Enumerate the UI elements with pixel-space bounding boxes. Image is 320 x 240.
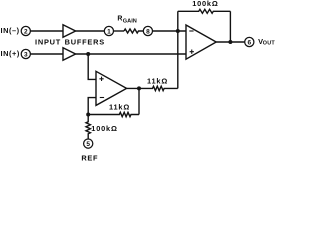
svg-text:1: 1 — [107, 28, 111, 35]
svg-text:GAIN: GAIN — [123, 18, 137, 24]
svg-text:11kΩ: 11kΩ — [109, 102, 130, 111]
svg-text:100kΩ: 100kΩ — [91, 124, 117, 133]
svg-text:REF: REF — [81, 153, 98, 162]
svg-text:INPUT BUFFERS: INPUT BUFFERS — [35, 38, 105, 47]
svg-text:8: 8 — [146, 28, 150, 35]
svg-text:11kΩ: 11kΩ — [147, 76, 168, 85]
svg-text:3: 3 — [24, 51, 28, 58]
svg-text:5: 5 — [86, 141, 90, 148]
svg-text:R: R — [117, 16, 122, 23]
svg-text:OUT: OUT — [263, 40, 276, 46]
svg-text:100kΩ: 100kΩ — [192, 0, 218, 8]
svg-text:IN(–): IN(–) — [1, 26, 20, 35]
svg-text:6: 6 — [247, 39, 251, 46]
svg-text:2: 2 — [24, 28, 28, 35]
svg-text:IN(+): IN(+) — [1, 49, 20, 58]
